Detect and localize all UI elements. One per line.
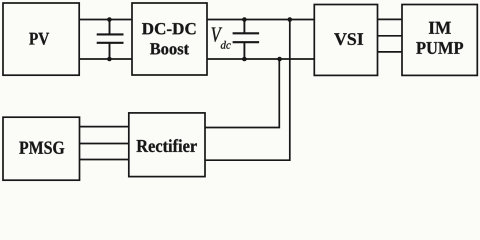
label Rectifier [137,139,197,152]
wire: VSI to pump phase B [378,35,403,37]
label Vdc V [212,28,223,42]
label IM [429,22,451,34]
label Vdc subscript dc [221,41,231,49]
capacitor C2 (DC link) top lead [243,20,245,34]
label VSI [334,33,363,45]
wire: rectifier minus output to top bus [205,20,290,161]
block PV box [3,3,79,75]
wire: rectifier plus output to bottom bus [205,59,279,128]
label PV [29,33,49,45]
node: top bus junction to rectifier branch [288,17,293,22]
capacitor C2 bottom lead [243,42,245,59]
node: C2 top junction [242,17,247,22]
node: C1 bottom junction [107,57,112,62]
node: C1 top junction [107,17,112,22]
label DC-DC [142,23,196,34]
wire: boost to VSI bottom bus [207,58,314,60]
capacitor C1 plates [97,33,124,35]
capacitor C1 bottom lead [109,43,111,59]
label PUMP [416,42,463,54]
block IM PUMP box [402,5,477,76]
wire: PV to boost bottom [79,58,132,60]
wire: VSI to pump phase C [378,51,403,53]
node: C2 bottom junction [242,57,247,62]
label PMSG [19,142,64,154]
wire: boost to VSI top bus [207,19,314,21]
wire: PMSG to rectifier phase C [80,159,129,161]
capacitor C1 top lead [109,20,111,35]
label Boost [150,43,189,54]
block DC-DC Boost box [132,3,207,75]
capacitor C2 plates [233,32,260,34]
wire: VSI to pump phase A [378,18,403,20]
wire: PMSG to rectifier phase B [80,143,129,145]
block Rectifier box [129,113,205,177]
node: bottom bus junction to rectifier branch [277,57,282,62]
block VSI box [314,5,377,76]
wire: PV to boost top [79,19,132,21]
wire: PMSG to rectifier phase A [80,126,129,128]
block PMSG box [3,117,80,180]
